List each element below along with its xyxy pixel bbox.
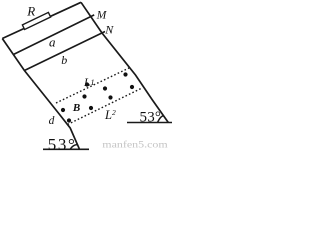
svg-text:N: N <box>104 23 114 37</box>
svg-text:53°: 53° <box>48 135 77 151</box>
svg-text:B: B <box>72 102 80 114</box>
svg-text:manfen5.com: manfen5.com <box>102 140 168 151</box>
svg-text:d: d <box>49 115 55 127</box>
svg-text:R: R <box>26 3 35 18</box>
svg-text:b: b <box>61 53 67 67</box>
svg-text:a: a <box>49 35 56 50</box>
svg-text:53°: 53° <box>140 110 162 126</box>
svg-text:M: M <box>96 10 108 22</box>
